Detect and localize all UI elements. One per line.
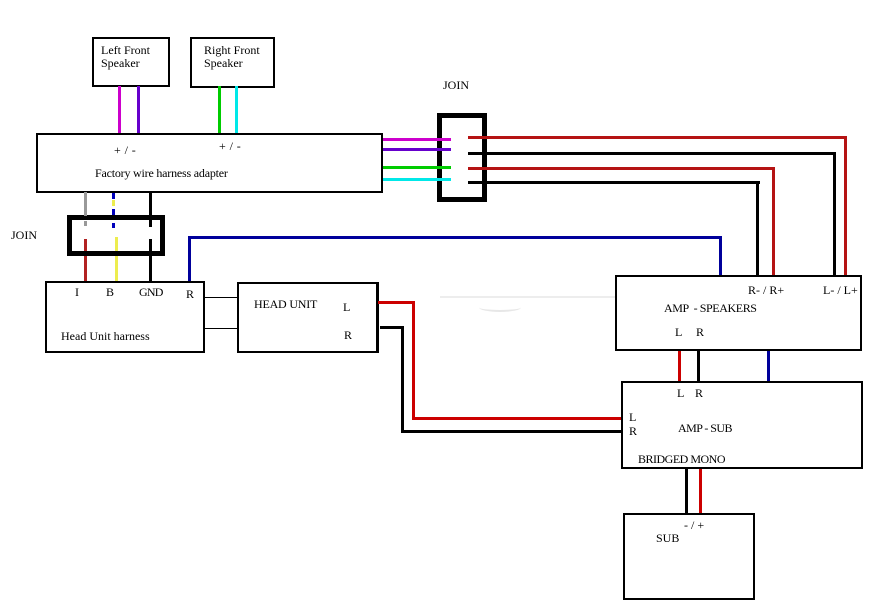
wire: right speaker - (cyan) xyxy=(235,86,238,134)
wire: adapter gray lead xyxy=(84,192,87,216)
wire: amp speakers L out (red) xyxy=(678,351,681,381)
label: Factory wire harness adapter xyxy=(95,167,228,180)
wire: head unit GND lead (black, lower) xyxy=(149,239,152,282)
label: AMP - SPEAKERS xyxy=(664,302,757,315)
wire: head unit I lead (dark red) xyxy=(84,239,87,251)
pin label: - / + xyxy=(684,519,704,532)
label: Head Unit harness xyxy=(61,330,150,343)
label: AMP - SUB xyxy=(678,422,732,435)
wire: remote pass-through (blue) xyxy=(767,351,770,381)
box: Factory wire harness adapter xyxy=(36,133,383,193)
wire: join to amp R- (black) xyxy=(468,181,760,184)
pin label: I xyxy=(75,286,79,299)
wire: harness to head unit link 1 xyxy=(205,297,237,298)
pin label: R (remote) xyxy=(186,288,194,301)
watermark remnant (faint) xyxy=(440,296,615,298)
pin label: amp sub L in xyxy=(677,387,684,400)
pin label: amp speakers L out xyxy=(675,326,682,339)
wire: adapter to join cyan xyxy=(383,178,451,181)
wire: join to amp L- (black) xyxy=(468,152,836,155)
wire: harness to head unit link 2 xyxy=(205,328,237,329)
pin label: R- / R+ xyxy=(748,284,784,297)
label: Right Front Speaker text xyxy=(204,44,260,70)
wire: join to amp L+ (red, top) xyxy=(468,136,847,139)
box: AMP - SUB xyxy=(621,381,863,469)
box: HEAD UNIT xyxy=(237,282,379,353)
wire: amp sub speaker - (black) xyxy=(685,469,688,513)
box: Right Front Speaker xyxy=(190,37,275,88)
pin label: head unit L xyxy=(343,301,350,314)
wire: head unit L RCA (red) xyxy=(378,301,415,304)
wire: join to amp R+ (red) xyxy=(468,167,775,170)
wire: adapter to join magenta xyxy=(383,138,451,141)
pin label: amp speakers R out xyxy=(696,326,704,339)
wire: right speaker + (green) xyxy=(218,86,221,134)
wire: adapter to join purple xyxy=(383,148,451,151)
wire: adapter to join green xyxy=(383,166,451,169)
pin label: L- / L+ xyxy=(823,284,858,297)
wire: amp sub speaker + (red) xyxy=(699,469,702,513)
label: JOIN (right) xyxy=(443,79,469,92)
pin label: amp sub R in xyxy=(695,387,703,400)
wire: head unit R RCA (black) xyxy=(380,326,404,329)
label: BRIDGED MONO xyxy=(638,453,725,466)
pin label: head unit R xyxy=(344,329,352,342)
wire: amp speakers R out (black) xyxy=(697,351,700,381)
wire: left speaker - (purple) xyxy=(137,86,140,134)
wire: adapter ground lead (black, upper) xyxy=(149,192,152,227)
label: + / - (left speaker pins) xyxy=(114,144,136,157)
wire: head unit B lead (yellow) xyxy=(115,237,118,251)
label: SUB xyxy=(656,532,679,545)
pin label: B xyxy=(106,286,114,299)
pin label: amp sub RCA L xyxy=(629,411,636,424)
label: + / - (right speaker pins) xyxy=(219,140,241,153)
wire: left speaker + (magenta) xyxy=(118,86,121,134)
box: Left Front Speaker xyxy=(92,37,170,87)
connector: JOIN block (right) xyxy=(437,113,487,202)
label: Left Front Speaker text xyxy=(101,44,150,70)
label: HEAD UNIT xyxy=(254,298,317,311)
box: Head Unit harness xyxy=(45,281,205,353)
wire: remote turn-on (navy blue) harness R to amp xyxy=(188,236,191,282)
pin label: GND xyxy=(139,286,163,299)
pin label: amp sub RCA R xyxy=(629,425,637,438)
box: SUB xyxy=(623,513,755,600)
box: AMP - SPEAKERS xyxy=(615,275,862,351)
connector: JOIN block (left) xyxy=(67,215,165,256)
label: JOIN (left) xyxy=(11,229,37,242)
wire: adapter blue dashed lead xyxy=(112,193,115,199)
